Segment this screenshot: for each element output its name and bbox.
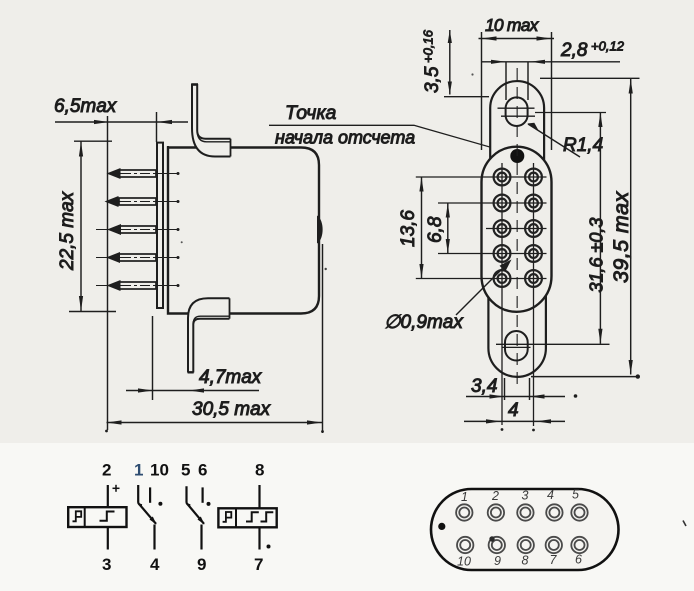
wire pin 2 [107,485,109,507]
dimension 3,4 [466,378,577,400]
svg-text:6,8: 6,8 [425,216,446,243]
contact dot 6 [207,502,211,506]
relay case (side view) [168,148,319,314]
svg-text:5: 5 [181,461,190,480]
svg-text:13,6: 13,6 [398,210,419,247]
svg-text:4,7max: 4,7max [199,367,263,388]
contact group 1-10-4 [138,485,156,550]
dimension 3,5 +0,16 [444,30,489,97]
dimension 39,5 max [531,78,640,379]
svg-text:6: 6 [198,461,207,480]
svg-text:8: 8 [255,461,264,480]
pin 1 (side) [107,168,180,179]
dimension 22,5 max [69,141,116,311]
top slot chord lines [498,108,607,116]
svg-text:7: 7 [254,555,263,574]
dimension 4 [464,419,565,423]
svg-text:2: 2 [491,489,499,503]
dimension 10 max [479,32,555,150]
reference point dot [510,149,524,163]
svg-text:3: 3 [522,489,529,503]
svg-text:начала отсчета: начала отсчета [275,128,415,148]
pin column lines [501,163,503,425]
svg-text:31,6 ±0,3: 31,6 ±0,3 [587,218,607,293]
svg-text:7: 7 [550,553,558,567]
top mounting ear [490,81,544,162]
pinout body outline [431,489,619,570]
stray speck near pin 3 [181,241,183,243]
svg-text:9: 9 [494,554,501,568]
svg-text:39,5 max: 39,5 max [609,191,633,283]
relay body outline (plan) [482,147,552,312]
pin 2 (side) [105,196,180,207]
case bump on right edge [317,216,323,244]
contact group 5-6-9 [187,486,205,549]
stray tick right edge [683,521,686,527]
polarity plus sign [113,485,120,492]
svg-text:6,5max: 6,5max [54,96,118,117]
coil winding II box [218,508,276,527]
pinout labels bottom [457,553,582,569]
wire pin 3 [107,527,109,550]
svg-text:6: 6 [575,553,582,567]
top mounting bracket [191,84,230,157]
top slot hole 2,8 [506,97,528,126]
dimension 4,7 max [126,316,259,400]
stray speck above ear [471,73,473,75]
dimension 31,6 ±0,3 [598,113,602,344]
svg-text:4: 4 [547,488,554,502]
dimension 6,5 max [55,112,188,430]
pin holes grid [494,169,542,287]
leader R1,4 [527,123,580,157]
contact tip 1 [150,517,157,525]
wire pin 7 [258,527,260,549]
dimension 2,8 +0,12 [482,60,620,100]
vertical axis center line [516,68,518,390]
pin 3 (side) [96,224,180,235]
svg-text:10: 10 [457,555,471,569]
svg-text:5: 5 [572,488,579,502]
bottom mounting ear [488,296,546,377]
svg-text:3: 3 [102,555,111,574]
bottom slot chord lines [496,344,610,347]
pin row lines [416,177,547,279]
pin 4 (side) [96,252,180,263]
mounting flange plate [156,142,168,313]
dimension 6,8 [446,203,450,254]
smudge on hole 9 [489,536,494,541]
svg-text:9: 9 [197,555,206,574]
svg-text:1: 1 [134,461,143,480]
bottom mounting bracket [188,298,230,372]
svg-text:22,5 max: 22,5 max [57,190,78,271]
svg-text:Точка: Точка [285,102,337,124]
svg-text:4: 4 [150,555,160,574]
pinout labels top [461,488,579,505]
pinout key dot [438,523,445,530]
svg-text:1: 1 [461,490,468,504]
svg-text:∅0,9max: ∅0,9max [384,312,464,333]
pin 5 (side) [96,280,180,291]
reference point note [269,125,516,154]
svg-text:R1,4: R1,4 [563,135,603,156]
dimension 13,6 [419,177,423,279]
stray speck right of case [325,268,327,270]
svg-text:10 max: 10 max [485,15,540,35]
wire dot near pin 7 [267,545,271,549]
contact dot 10 [158,502,162,506]
svg-text:4: 4 [508,400,519,421]
svg-text:3,4: 3,4 [471,376,497,397]
svg-text:10: 10 [150,461,169,480]
svg-text:30,5 max: 30,5 max [192,399,272,420]
svg-text:2: 2 [102,461,111,480]
svg-text:8: 8 [522,554,529,568]
coil winding I box [68,507,126,527]
pinout holes top row [456,504,588,520]
pinout holes bottom row [457,537,588,553]
leader Ø0,9 max [456,260,512,316]
dimension 30,5 max [105,244,324,433]
contact tip 5 [198,517,205,525]
bottom slot hole [505,331,528,361]
wire pin 8 [258,485,260,508]
